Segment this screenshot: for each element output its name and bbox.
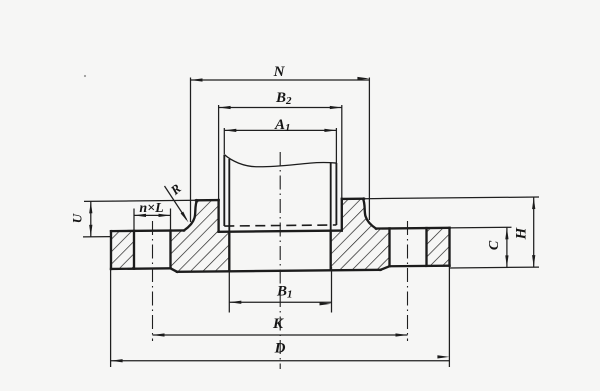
- dimension B1 line: [229, 301, 331, 303]
- svg-text:H: H: [514, 226, 530, 240]
- main centerline: [279, 152, 281, 369]
- ext lines B1: [228, 268, 230, 313]
- arrow H down: [532, 255, 535, 267]
- dimension K line: [153, 334, 408, 336]
- bolt hole left, right edge: [169, 231, 171, 269]
- arrow B1 right: [320, 302, 332, 305]
- arrow A1 left: [224, 129, 236, 132]
- arrow B2 right: [330, 106, 342, 109]
- socket bore wall right: [341, 199, 343, 231]
- svg-text:N: N: [273, 64, 286, 80]
- dimension D line: [111, 360, 450, 362]
- dimension A1 line: [224, 129, 336, 131]
- arrow R leader: [181, 212, 189, 223]
- hatch right hub/plate section: [331, 198, 390, 270]
- bore B1 wall left: [228, 232, 230, 272]
- arrow U down: [89, 225, 92, 237]
- arrow A1 right: [324, 129, 336, 132]
- bolt hole right, right edge: [425, 228, 427, 266]
- arrow N left: [191, 78, 203, 81]
- bolt hole right, left edge: [388, 228, 390, 266]
- dimension H line: [533, 197, 535, 267]
- plate bottom left: [111, 267, 171, 270]
- arrow B2 left: [219, 106, 231, 109]
- hatch right outer ring section: [427, 228, 450, 266]
- flange right edge: [448, 228, 450, 266]
- ext lines D: [110, 269, 112, 367]
- dimension B2 line: [219, 107, 342, 109]
- arrow nxL right: [159, 214, 171, 217]
- pipe outer wall right: [335, 163, 337, 225]
- svg-text:U: U: [70, 213, 85, 223]
- plate top left: [111, 229, 184, 232]
- arrow D left: [111, 359, 123, 362]
- raised face bottom: [177, 270, 381, 272]
- raised face chamfer right: [381, 266, 390, 270]
- svg-text:D: D: [274, 341, 286, 357]
- dimension nxL line: [134, 214, 171, 216]
- svg-text:K: K: [272, 316, 284, 332]
- ext line for U top (hub top level, to the left): [84, 200, 197, 201]
- ext line for U bottom: [83, 236, 111, 238]
- ext lines A1 (above pipe break): [223, 128, 225, 154]
- ext lines N: [190, 78, 192, 223]
- ext lines nxL: [133, 209, 135, 231]
- bolt hole left, left edge: [133, 231, 135, 269]
- hub top face right: [342, 198, 364, 201]
- ext line for H/C bottom: [450, 266, 540, 269]
- arrow C down: [505, 255, 508, 267]
- arrow K right: [396, 333, 408, 336]
- ext lines B2 (above hub): [218, 105, 220, 199]
- svg-text:n×L: n×L: [139, 201, 163, 216]
- ext line for H top (hub top level, to the right): [364, 197, 539, 199]
- plate bottom right: [390, 264, 450, 267]
- hatch left hub/plate section: [171, 200, 230, 272]
- leader R: [165, 186, 187, 220]
- pipe break wavy line: [224, 153, 336, 167]
- arrow N right: [357, 77, 369, 80]
- dust speck: [84, 75, 86, 77]
- plate top right: [376, 227, 450, 230]
- bore B1 wall right: [330, 231, 332, 271]
- arrow nxL left: [134, 214, 146, 217]
- arrow B1 left: [229, 301, 241, 304]
- hatch left outer ring section: [111, 231, 134, 269]
- flange left edge: [110, 231, 112, 269]
- dimension U line: [90, 201, 92, 237]
- hub left wall and fillet: [184, 200, 197, 230]
- ext line for C top (plate top level, to the right): [450, 226, 512, 229]
- pipe inner wall right: [330, 163, 332, 231]
- arrow H up: [532, 197, 535, 209]
- arrow U up: [89, 201, 92, 213]
- bolt centerline right: [407, 221, 409, 341]
- socket shoulder: [219, 231, 342, 232]
- dimension N line: [191, 79, 370, 81]
- pipe inner wall left: [228, 159, 230, 232]
- bolt centerline left: [152, 221, 154, 341]
- socket bore wall left: [217, 200, 219, 232]
- raised face chamfer left: [171, 268, 178, 272]
- hub top face left: [196, 199, 219, 202]
- arrow D right: [437, 355, 449, 358]
- arrow K left: [153, 333, 165, 336]
- pipe end hidden line: [224, 225, 336, 226]
- svg-text:C: C: [487, 240, 502, 250]
- pipe outer wall left: [223, 155, 225, 227]
- dimension C line: [506, 227, 508, 267]
- arrow C up: [505, 227, 508, 239]
- hub right wall and fillet: [363, 199, 376, 229]
